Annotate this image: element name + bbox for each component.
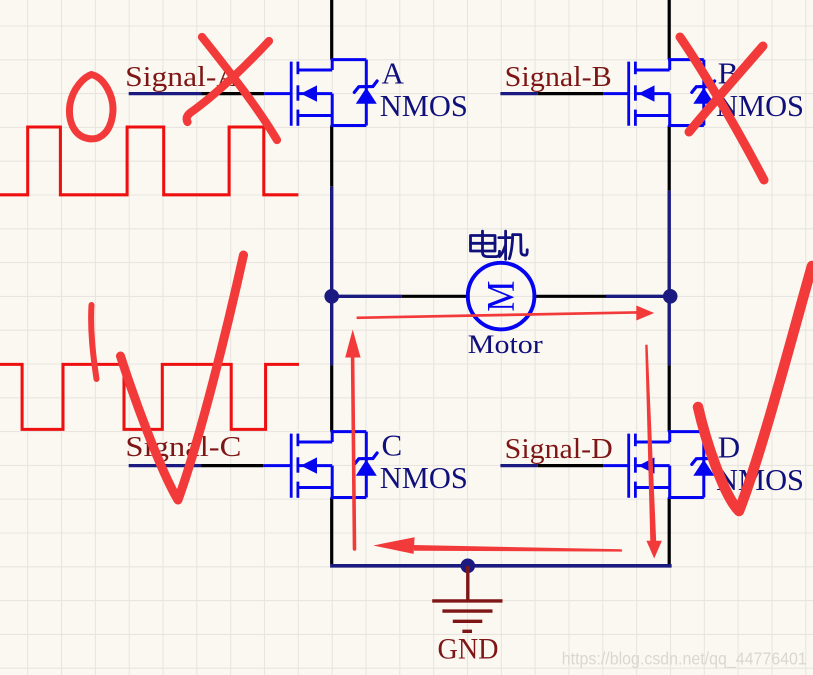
wire: Q-B source to node R (navy part) — [668, 191, 671, 297]
svg-text:GND: GND — [438, 633, 499, 666]
wire: Q-B source to node R (black part) — [668, 126, 671, 191]
annotation: digit 1 (Signal-C state) — [91, 305, 96, 379]
waveform PWM trace 2 (mid-left, complementary) — [0, 364, 299, 429]
wire: node L down (navy) — [330, 296, 333, 365]
wire: Signal-C net — [129, 464, 201, 467]
annotation: X cross over Signal-A — [202, 37, 277, 140]
node R junction dot — [663, 289, 678, 304]
svg-text:Signal-B: Signal-B — [505, 61, 612, 93]
svg-text:Signal-C: Signal-C — [125, 431, 241, 463]
transistor Q-D (D NMOS) — [629, 430, 715, 499]
wire: Q-A source to node L (black part) — [330, 126, 333, 187]
node L junction dot — [324, 289, 339, 304]
annotation: current arrow right (through motor) — [357, 312, 638, 317]
annotation: current arrow left (bottom) — [414, 545, 622, 552]
pin: Q-C gate lead — [263, 464, 290, 467]
svg-text:C: C — [382, 428, 403, 463]
svg-text:NMOS: NMOS — [380, 88, 468, 123]
motor M1 circle — [468, 263, 535, 330]
wire: Q-C source to rail (black) — [330, 498, 333, 565]
wire: node R down (navy) — [668, 296, 671, 365]
GND junction dot — [461, 559, 476, 574]
svg-text:NMOS: NMOS — [380, 460, 468, 495]
wire: motor row, motor to node R (black then navy) — [534, 295, 606, 298]
wire: VCC feed to Q-B drain — [668, 0, 671, 60]
svg-text:Signal-D: Signal-D — [505, 433, 613, 465]
wire: Q-A source to node L (navy part) — [330, 187, 333, 297]
wire: Signal-B net — [500, 92, 537, 95]
annotation: digit 0 (Signal-A state) — [69, 75, 113, 139]
annotation: X cross over Q-B — [680, 37, 764, 180]
wire: Q-D source to rail (black) — [668, 498, 671, 565]
wire: motor row, node L to motor (navy then black) — [332, 295, 402, 298]
wire: VCC feed to Q-A drain — [330, 0, 333, 60]
wire: Signal-D net — [500, 464, 537, 467]
label 电机 (motor, chinese) — [471, 231, 528, 259]
wire: node R to Q-D drain (black) — [668, 365, 671, 432]
wire: Signal-A net — [129, 92, 201, 95]
annotation: current arrow up (left leg) — [353, 357, 355, 549]
pin: Q-B gate lead — [603, 92, 628, 95]
waveform PWM trace 1 (top-left) — [0, 127, 298, 195]
pin: Q-A gate lead — [264, 92, 290, 95]
annotation: checkmark over Q-D — [698, 266, 812, 511]
transistor Q-B (B NMOS) — [629, 58, 715, 127]
transistor Q-C (C NMOS) — [291, 430, 377, 499]
annotation: current arrow down (right leg) — [645, 345, 656, 542]
transistor Q-A (A NMOS) — [291, 58, 377, 127]
svg-text:A: A — [382, 56, 405, 91]
svg-text:Motor: Motor — [468, 330, 543, 359]
annotation: checkmark over Signal-C — [121, 255, 244, 500]
svg-text:D: D — [718, 430, 740, 465]
ground GND symbol — [432, 566, 502, 631]
svg-text:https://blog.csdn.net/qq_44776: https://blog.csdn.net/qq_44776401 — [562, 649, 807, 670]
wire: node L to Q-C drain (black) — [330, 365, 333, 432]
pin: Q-D gate lead — [603, 464, 628, 467]
svg-text:M: M — [480, 281, 523, 312]
wire: bottom GND rail — [330, 564, 671, 568]
